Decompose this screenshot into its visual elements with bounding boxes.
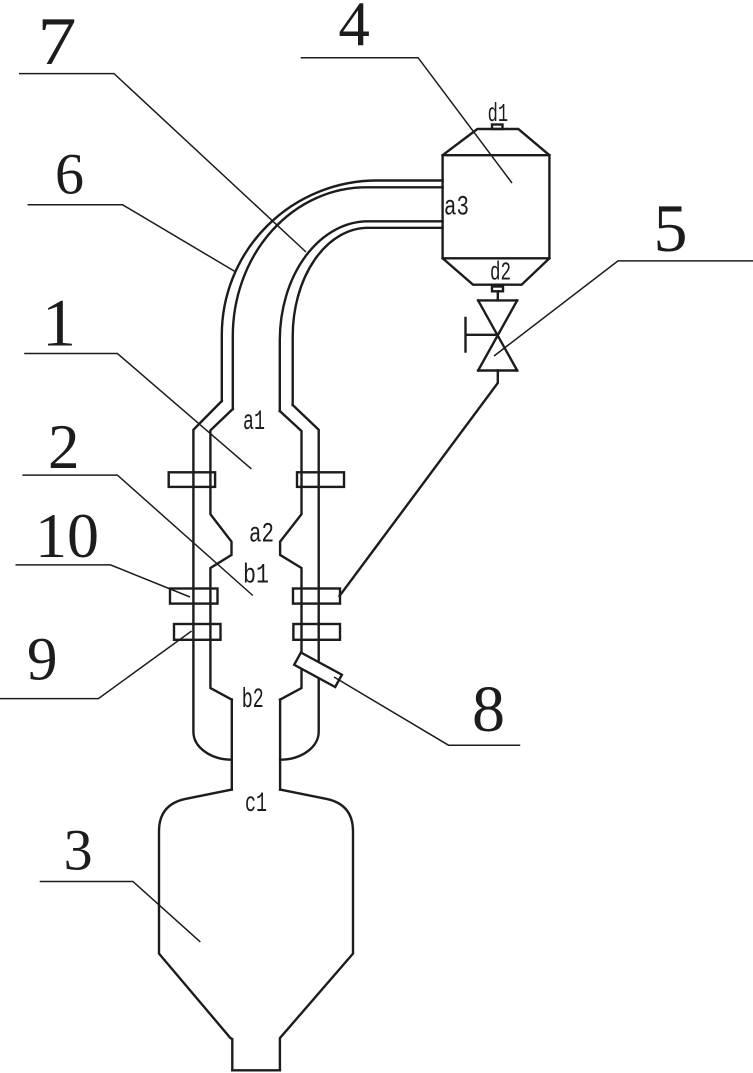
feed tank 4 bottom cone	[443, 258, 550, 284]
column inner wall left with a2 constriction and b2 taper	[210, 409, 232, 700]
column outer wall left (flare, straight run, bowl into neck)	[193, 401, 231, 760]
svg-text:c1: c1	[245, 789, 267, 820]
svg-text:a2: a2	[249, 520, 274, 551]
leader 2	[22, 475, 252, 595]
leader 10	[16, 565, 191, 597]
leader 3	[40, 882, 201, 942]
valve 5 stem upper	[497, 291, 499, 300]
leader 4	[301, 58, 512, 183]
neck c1 left line	[231, 700, 233, 790]
svg-text:8: 8	[472, 673, 505, 746]
svg-text:a3: a3	[444, 193, 469, 224]
svg-text:7: 7	[38, 3, 77, 79]
bottom vessel 3 left shoulder and wall	[159, 790, 232, 1071]
inner pipe 7 upper wall	[233, 187, 443, 409]
leader 6	[28, 205, 236, 272]
leader 1	[24, 354, 251, 469]
flange row C right	[293, 624, 340, 640]
svg-text:d2: d2	[490, 258, 511, 288]
svg-text:4: 4	[338, 0, 370, 59]
feed tank 4 top nozzle d1	[492, 125, 503, 130]
valve 5 body (bowtie)	[478, 300, 517, 370]
outer pipe 6 upper wall	[222, 181, 443, 402]
inner pipe 7 lower wall	[280, 221, 443, 411]
flange row A right	[297, 472, 344, 487]
svg-text:6: 6	[55, 141, 84, 206]
leader 9	[0, 631, 192, 699]
outer pipe 6 lower wall	[293, 228, 443, 405]
pipe from valve to column flange	[340, 371, 498, 597]
leader 7	[19, 74, 306, 252]
bottom vessel 3 spout bottom edge	[232, 1069, 280, 1071]
svg-text:3: 3	[64, 817, 93, 882]
flange row B left	[170, 589, 218, 604]
column outer wall right	[280, 405, 319, 760]
svg-text:1: 1	[42, 285, 76, 361]
svg-text:b1: b1	[243, 560, 269, 591]
svg-text:5: 5	[654, 190, 688, 266]
tilted nozzle 8	[294, 653, 342, 688]
leader 5	[494, 261, 753, 356]
bottom vessel 3 right shoulder and wall	[280, 790, 353, 1071]
flange row B right	[293, 589, 340, 604]
svg-text:a1: a1	[243, 407, 265, 438]
svg-text:b2: b2	[242, 685, 264, 716]
svg-text:10: 10	[35, 500, 99, 571]
feed tank 4 bottom nozzle d2	[492, 287, 503, 292]
leader 8	[334, 677, 520, 745]
neck c1 right line	[279, 700, 281, 790]
feed tank 4 top chamfered head	[443, 129, 550, 155]
svg-text:d1: d1	[488, 99, 509, 129]
column inner wall right with a2 constriction and b2 taper	[280, 411, 302, 700]
flange row C left	[174, 624, 221, 640]
svg-text:9: 9	[27, 627, 58, 694]
feed tank 4 body	[443, 155, 550, 258]
flange row A left	[169, 472, 215, 487]
valve 5 handle	[466, 318, 498, 352]
svg-text:2: 2	[48, 412, 80, 482]
